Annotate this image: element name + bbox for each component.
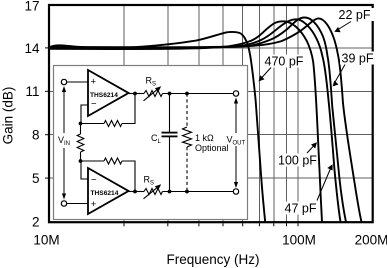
gain resistor RG stub bottom bbox=[80, 152, 82, 161]
arrow 470 pF bbox=[261, 68, 271, 79]
capacitor CL top lead bbox=[169, 94, 171, 133]
curve 22 pF bbox=[49, 18, 362, 222]
svg-text:Gain (dB): Gain (dB) bbox=[1, 87, 16, 145]
svg-text:THS6214: THS6214 bbox=[91, 190, 119, 197]
svg-text:−: − bbox=[91, 99, 97, 110]
svg-text:11: 11 bbox=[25, 84, 39, 99]
wire upper inverting input bbox=[81, 105, 88, 124]
resistor RF1 (upper feedback) bbox=[104, 121, 122, 127]
capacitor CL plates bbox=[162, 132, 178, 134]
arrow of variable resistor RS1 bbox=[144, 88, 159, 100]
wire upper feedback right bbox=[122, 94, 135, 124]
dashed lead to optional resistor (bottom) bbox=[186, 147, 188, 192]
svg-text:−: − bbox=[91, 175, 97, 186]
resistor RS2 (lower series) bbox=[144, 189, 163, 195]
wire upper output bbox=[129, 93, 145, 95]
output terminal lower bbox=[233, 189, 238, 194]
wire upper input bbox=[67, 81, 88, 83]
svg-text:14: 14 bbox=[24, 41, 40, 56]
svg-text:5: 5 bbox=[32, 171, 40, 186]
resistor RG (gain) bbox=[77, 134, 84, 152]
curve 470 pF bbox=[49, 32, 266, 222]
curve label 100 pF bbox=[277, 154, 317, 167]
resistor RS1 (upper series) bbox=[144, 91, 163, 97]
op-amp U2 THS6214 (bottom) bbox=[88, 168, 129, 214]
curve label 39 pF bbox=[340, 52, 377, 65]
node lower feedback tap bbox=[79, 159, 83, 163]
capacitor CL bottom lead bbox=[169, 137, 171, 192]
op-amp U1 THS6214 (top) bbox=[88, 70, 129, 116]
VOUT annotation line + arrows bbox=[235, 100, 237, 185]
svg-text:100 pF: 100 pF bbox=[278, 154, 317, 168]
node upper feedback tap bbox=[79, 122, 83, 126]
inset panel bbox=[54, 66, 248, 220]
svg-text:+: + bbox=[91, 77, 97, 88]
wire lower output to terminal bbox=[163, 191, 234, 193]
svg-text:47 pF: 47 pF bbox=[285, 202, 317, 216]
node lower output bbox=[133, 190, 137, 194]
svg-text:200M: 200M bbox=[355, 232, 387, 247]
svg-text:Frequency (Hz): Frequency (Hz) bbox=[166, 252, 259, 267]
wire lower output bbox=[129, 191, 145, 193]
node lower 1k tap bbox=[185, 190, 189, 194]
svg-text:Optional: Optional bbox=[195, 143, 229, 153]
arrow 39 pF bbox=[335, 65, 345, 83]
svg-text:2: 2 bbox=[32, 214, 40, 229]
svg-text:+: + bbox=[91, 199, 97, 210]
svg-text:470 pF: 470 pF bbox=[265, 55, 304, 69]
vertical minor gridlines 20M-100M bbox=[124, 5, 298, 222]
VIN annotation line + arrows bbox=[63, 89, 65, 197]
node upper CL tap bbox=[168, 92, 172, 96]
curve label 470 pF bbox=[263, 55, 305, 68]
node upper 1k tap bbox=[185, 92, 189, 96]
svg-text:10M: 10M bbox=[33, 232, 59, 247]
svg-text:8: 8 bbox=[32, 128, 40, 143]
resistor RF2 (lower feedback) bbox=[104, 158, 122, 164]
curve 47 pF bbox=[49, 19, 341, 222]
svg-text:1 kΩ: 1 kΩ bbox=[195, 133, 214, 143]
input terminal lower bbox=[61, 201, 66, 206]
arrow 22 pF bbox=[338, 22, 351, 30]
curve 100 pF bbox=[49, 21, 323, 222]
curve label 47 pF bbox=[283, 202, 317, 215]
wire lower feedback left bbox=[81, 160, 105, 162]
output terminal upper bbox=[233, 91, 238, 96]
plot border / axes bbox=[49, 5, 373, 222]
node lower CL tap bbox=[168, 190, 172, 194]
arrow of variable resistor RS2 bbox=[144, 186, 159, 198]
arrow 47 pF bbox=[317, 169, 331, 201]
arrow 100 pF bbox=[307, 145, 315, 153]
svg-text:17: 17 bbox=[24, 0, 39, 13]
wire lower input bbox=[67, 203, 88, 205]
node upper output bbox=[133, 92, 137, 96]
horizontal gridlines 14,11,8,5 dB bbox=[49, 48, 373, 178]
input terminal upper bbox=[61, 79, 66, 84]
y-axis ticks left of axis bbox=[45, 48, 48, 178]
wire lower feedback right bbox=[122, 161, 135, 192]
junction dots bbox=[79, 92, 189, 194]
svg-text:100M: 100M bbox=[282, 232, 316, 247]
resistor 1k optional bbox=[183, 127, 192, 147]
svg-text:39 pF: 39 pF bbox=[342, 52, 374, 66]
wire upper output to terminal bbox=[163, 93, 234, 95]
curve label 22 pF bbox=[337, 8, 374, 21]
gain resistor RG stub top bbox=[80, 124, 82, 135]
svg-text:22 pF: 22 pF bbox=[339, 8, 371, 22]
wire lower inverting input bbox=[81, 161, 88, 179]
curve 39 pF bbox=[49, 18, 347, 223]
x-axis minor ticks below axis bbox=[124, 223, 298, 226]
wire upper feedback left bbox=[81, 123, 105, 125]
dashed lead to optional resistor (top) bbox=[186, 94, 188, 128]
